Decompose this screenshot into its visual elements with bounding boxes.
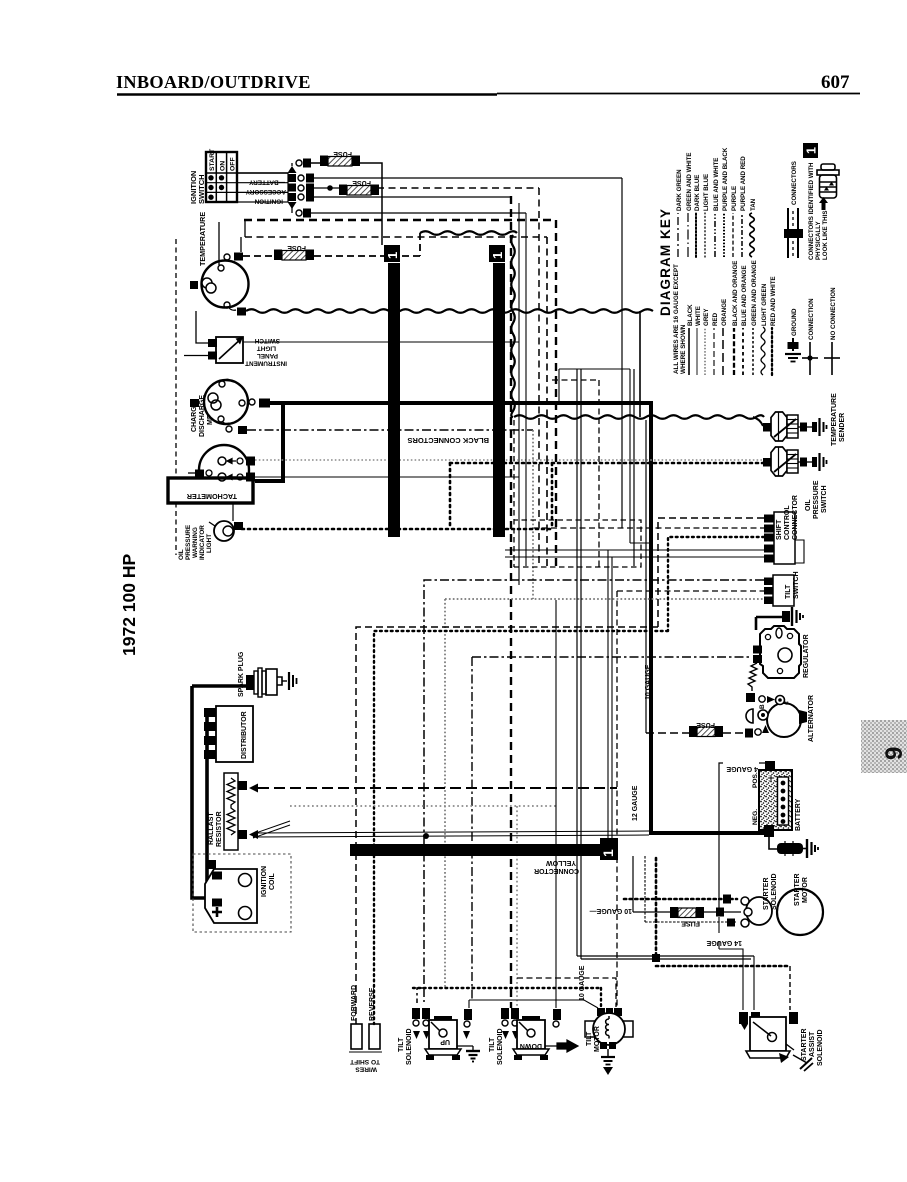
page edge tab 9: [861, 720, 907, 773]
label to shift wires: [349, 1052, 382, 1073]
alternator: [746, 663, 815, 742]
wire thick meter to tachometer: [255, 403, 283, 481]
svg-text:ON: ON: [220, 161, 227, 171]
wire dashed border left x184: [175, 239, 177, 555]
svg-text:INBOARD/OUTDRIVE: INBOARD/OUTDRIVE: [116, 72, 311, 92]
svg-text:GREEN AND ORANGE: GREEN AND ORANGE: [751, 260, 758, 326]
key connectors identified note: [808, 162, 829, 260]
wire pair below yellow connector to assist solenoid: [577, 856, 754, 959]
svg-text:FUSE: FUSE: [333, 150, 352, 157]
svg-text:MOTOR: MOTOR: [802, 877, 809, 903]
svg-text:10 GAUGE: 10 GAUGE: [579, 965, 586, 1001]
instrument panel light switch: [184, 311, 287, 367]
wire wavy temp gauge: [246, 309, 653, 313]
svg-text:CONTROL: CONTROL: [784, 505, 791, 540]
yellow connector bar: [350, 838, 618, 860]
svg-text:FORWARD: FORWARD: [351, 985, 358, 1021]
wire wavy vertical x550: [511, 235, 515, 417]
svg-text:1: 1: [490, 252, 505, 259]
wire heavy dashed instrument border: [244, 220, 556, 567]
key white: [696, 328, 698, 375]
charge discharge meter: [190, 379, 270, 437]
svg-text:COIL: COIL: [269, 873, 276, 890]
svg-text:TEMPERATURE: TEMPERATURE: [198, 212, 207, 266]
wire dashed x599: [552, 380, 599, 567]
wire shift pin5 line: [505, 556, 764, 558]
svg-text:607: 607: [821, 72, 850, 93]
wire grey tach to oil switch: [255, 459, 763, 461]
svg-text:YELLOW: YELLOW: [546, 859, 576, 866]
svg-text:LIGHT: LIGHT: [257, 345, 276, 352]
svg-text:BLUE AND ORANGE: BLUE AND ORANGE: [741, 265, 748, 326]
wire 4 gauge battery pos: [719, 763, 766, 908]
wire dotted riser x450: [449, 463, 452, 529]
svg-text:TILT: TILT: [586, 1031, 593, 1046]
svg-text:1: 1: [805, 147, 819, 154]
svg-text:ALTERNATOR: ALTERNATOR: [808, 695, 815, 742]
wire dashed mid box: [514, 420, 641, 567]
fuse F4: [689, 721, 723, 737]
wire ignition row: [314, 196, 511, 198]
header title INBOARD/OUTDRIVE: [116, 72, 311, 92]
wire dotted reverse: [374, 537, 764, 1024]
key blue and orange: [742, 328, 744, 375]
starter assist solenoid: [739, 1012, 824, 1071]
oil pressure switch: [763, 447, 828, 519]
label yellow connector: [534, 859, 579, 874]
svg-text:RED: RED: [712, 312, 719, 326]
svg-text:1: 1: [385, 252, 400, 259]
svg-text:STARTER: STARTER: [763, 877, 770, 910]
svg-text:SOLENOID: SOLENOID: [406, 1028, 413, 1065]
svg-text:CONNECTOR: CONNECTOR: [534, 867, 579, 874]
svg-text:14 GAUGE: 14 GAUGE: [706, 939, 742, 946]
wire dashed tilt pin2: [617, 590, 764, 592]
tilt solenoid down: [489, 1008, 578, 1065]
key black and orange: [733, 328, 735, 375]
wire dotted assist feed: [656, 965, 790, 968]
wire fuse F3 link: [314, 233, 420, 256]
wire heavy dashed ballast feed: [258, 787, 617, 789]
wire fine dotted coil box feed: [290, 806, 556, 1008]
svg-text:PURPLE AND BLACK: PURPLE AND BLACK: [722, 147, 729, 211]
wire vertical to shift pin2: [621, 178, 623, 528]
wire dotted riser x552: [551, 463, 554, 529]
wire ignition lower terminal: [309, 212, 526, 214]
svg-text:UP: UP: [440, 1038, 450, 1045]
wire dashed forward: [356, 518, 764, 1024]
key no connection symbol: [824, 287, 840, 375]
ballast resistor: [208, 773, 258, 850]
key green and orange: [752, 328, 754, 375]
svg-text:ORANGE: ORANGE: [721, 299, 728, 326]
wire shift pin4 line: [505, 549, 764, 551]
svg-text:SWITCH: SWITCH: [254, 337, 280, 344]
svg-text:FUSE: FUSE: [352, 179, 371, 186]
wire assist left pin2: [753, 956, 755, 1010]
svg-text:GREEN AND WHITE: GREEN AND WHITE: [686, 152, 693, 211]
svg-text:IGNITION: IGNITION: [254, 198, 283, 205]
svg-text:SWITCH: SWITCH: [793, 571, 800, 599]
svg-text:4 GAUGE: 4 GAUGE: [726, 765, 758, 772]
page number 607: [821, 72, 850, 93]
temperature sender: [763, 393, 846, 446]
svg-text:TO SHIFT: TO SHIFT: [350, 1058, 380, 1065]
tilt motor: [585, 1008, 633, 1075]
wire vertical accessory drop: [633, 369, 635, 566]
junction dot accessory: [327, 185, 333, 191]
svg-text:REVERSE: REVERSE: [369, 987, 376, 1021]
svg-text:PANEL: PANEL: [257, 352, 278, 359]
svg-text:REGULATOR: REGULATOR: [803, 634, 810, 678]
svg-text:FUSE: FUSE: [696, 721, 715, 728]
diagram key block: [658, 143, 840, 375]
tachometer: [168, 445, 255, 503]
key dark green: [677, 213, 679, 257]
svg-text:12 GAUGE: 12 GAUGE: [632, 785, 639, 821]
svg-text:DOWN: DOWN: [520, 1042, 542, 1049]
svg-text:SENDER: SENDER: [839, 413, 846, 442]
key light blue: [704, 213, 706, 257]
svg-text:TILT: TILT: [785, 584, 792, 599]
svg-text:LOOK LIKE THIS: LOOK LIKE THIS: [822, 211, 829, 261]
svg-text:MOTOR: MOTOR: [594, 1026, 601, 1052]
svg-text:BLACK CONNECTORS: BLACK CONNECTORS: [407, 436, 489, 445]
svg-text:STARTER: STARTER: [801, 1028, 808, 1061]
wire dashed alternator fuse right: [723, 732, 744, 734]
svg-text:NEG.: NEG.: [752, 809, 759, 825]
key tan: [750, 213, 755, 257]
shift control connector: [764, 495, 804, 564]
wire accessory row through fuse F2: [314, 187, 347, 189]
svg-text:WARNING: WARNING: [192, 527, 199, 558]
svg-text:CONNECTION: CONNECTION: [808, 298, 815, 340]
wire coil pair upper: [253, 831, 649, 833]
svg-text:ALL WIRES ARE 16 GAUGE EXCEPT: ALL WIRES ARE 16 GAUGE EXCEPT: [673, 264, 680, 374]
wire wavy top link: [420, 231, 517, 235]
key connectors symbol: [784, 161, 803, 258]
svg-text:TEMPERATURE: TEMPERATURE: [831, 393, 838, 446]
oil pressure warning indicator light: [178, 521, 243, 560]
wire down solenoid right feed: [469, 600, 598, 1008]
wire heavy dashed vertical x511: [510, 196, 512, 1008]
wire vertical temp link: [639, 311, 641, 417]
starter motor: [777, 873, 823, 935]
wire corner rect right web: [559, 369, 651, 543]
svg-text:SPARK PLUG: SPARK PLUG: [238, 651, 245, 697]
svg-text:BATTERY: BATTERY: [795, 798, 802, 831]
key connection symbol: [802, 298, 818, 375]
key numbered connector box 1: [803, 143, 819, 158]
svg-text:SWITCH: SWITCH: [821, 485, 828, 513]
starter solenoid: [741, 873, 778, 927]
svg-text:OIL: OIL: [178, 549, 185, 560]
wire fuse F5 to starter solenoid: [704, 911, 741, 913]
wire 10 gauge to alternator fuse: [645, 420, 647, 733]
svg-text:TAN: TAN: [750, 198, 757, 211]
svg-text:CONNECTORS: CONNECTORS: [791, 161, 798, 205]
svg-text:LIGHT BLUE: LIGHT BLUE: [703, 174, 710, 211]
label 1972 100 HP: [119, 554, 139, 656]
wire dotted starter solenoid top: [624, 898, 737, 901]
wire tach box to oil light: [176, 503, 233, 521]
distributor: [192, 686, 253, 898]
spark plug: [192, 651, 297, 697]
svg-text:OIL: OIL: [805, 499, 812, 511]
battery: [726, 761, 818, 858]
svg-text:PURPLE: PURPLE: [731, 186, 738, 211]
svg-text:POS.: POS.: [752, 772, 759, 788]
key light green: [761, 327, 765, 375]
wire dashed alternator fuse left: [646, 732, 689, 734]
svg-text:1972 100 HP: 1972 100 HP: [119, 554, 139, 656]
key connector barrel drawing: [817, 164, 839, 198]
wire dotted to oil pressure switch: [450, 462, 763, 465]
svg-text:PURPLE AND RED: PURPLE AND RED: [740, 156, 747, 211]
wire tach lower: [255, 476, 519, 478]
ignition coil: [193, 854, 291, 932]
temperature gauge: [190, 212, 277, 316]
svg-text:WHITE: WHITE: [695, 306, 702, 326]
svg-text:TILT: TILT: [489, 1037, 496, 1052]
wire battery row: [314, 177, 622, 179]
key purple: [732, 213, 734, 257]
svg-text:GROUND: GROUND: [791, 308, 798, 336]
wire thick charge meter feed 12 gauge: [262, 403, 766, 833]
svg-text:NO CONNECTION: NO CONNECTION: [830, 287, 837, 340]
svg-text:DARK BLUE: DARK BLUE: [694, 175, 701, 211]
key blue and white: [714, 213, 716, 257]
wire dashed tilt motor pin3 feed: [517, 978, 616, 1007]
wire vertical x519: [518, 203, 520, 585]
wire dash-dot tilt switch feed: [417, 580, 764, 1003]
svg-text:TILT: TILT: [398, 1037, 405, 1052]
wire ignition battery feed to fuse F1: [309, 163, 382, 245]
svg-text:STARTER: STARTER: [794, 873, 801, 906]
svg-text:RALLAST: RALLAST: [208, 812, 215, 845]
key black: [688, 328, 690, 375]
svg-text:SWITCH: SWITCH: [197, 174, 206, 204]
wire solid pair to fuse F5: [577, 369, 581, 844]
fuse F5: [670, 907, 704, 927]
svg-text:INSTRUMENT: INSTRUMENT: [245, 360, 287, 367]
wire coil pair lower: [253, 835, 649, 837]
wire dash-dot regulator feed: [472, 657, 752, 1000]
junction dot ballast lower feed: [423, 833, 429, 839]
svg-text:GREY: GREY: [703, 308, 710, 326]
wire branch2 to yellow connector box: [611, 557, 613, 838]
svg-text:LIGHT: LIGHT: [206, 534, 213, 553]
tilt solenoid up: [398, 1008, 480, 1065]
svg-text:CONNECTORS IDENTIFIED WITH: CONNECTORS IDENTIFIED WITH: [808, 162, 815, 260]
svg-text:DARK GREEN: DARK GREEN: [676, 169, 683, 211]
black connector bar 1: [384, 245, 400, 537]
svg-text:START: START: [209, 148, 216, 171]
svg-text:B: B: [759, 704, 766, 709]
wire light green thin to starter solenoid lower: [645, 856, 728, 922]
svg-text:RESISTOR: RESISTOR: [216, 811, 223, 847]
wire wavy to temperature sender: [514, 415, 764, 419]
wire dotted vertical x656: [655, 858, 658, 955]
svg-text:PRESSURE: PRESSURE: [813, 480, 820, 519]
wire dash-dot meter: [247, 429, 533, 431]
regulator: [753, 607, 810, 678]
key red and white: [771, 328, 773, 375]
wire 10 gauge drop to starter fuse: [633, 856, 672, 912]
key dark blue: [695, 213, 697, 257]
svg-text:CONNECTOR: CONNECTOR: [792, 495, 799, 540]
fuse F2: [339, 179, 379, 195]
header rule: [117, 94, 860, 95]
wire dashed inner border: [245, 237, 547, 567]
key red: [713, 328, 715, 375]
key purple and black: [723, 213, 725, 257]
svg-text:ASSIST: ASSIST: [809, 1031, 816, 1057]
svg-text:OFF: OFF: [230, 157, 237, 171]
svg-text:DISTRIBUTOR: DISTRIBUTOR: [241, 711, 248, 759]
svg-text:WIRES: WIRES: [355, 1066, 377, 1073]
wire dotted tilt bottom: [413, 988, 601, 1007]
svg-text:WHERE SHOWN: WHERE SHOWN: [680, 324, 687, 374]
fuse F1: [320, 150, 360, 166]
svg-text:PHYSICALLY: PHYSICALLY: [815, 221, 822, 260]
wire ballast diagonals: [253, 821, 290, 838]
wire wavy temp drop: [753, 417, 763, 426]
tilt switch: [764, 571, 800, 606]
key ground symbol: [785, 308, 801, 362]
key green and white: [687, 213, 689, 257]
svg-text:10 GAUGE—: 10 GAUGE—: [590, 907, 632, 914]
svg-text:BLACK: BLACK: [687, 304, 694, 326]
svg-text:INDICATOR: INDICATOR: [199, 525, 206, 560]
svg-text:PRESSURE: PRESSURE: [185, 524, 192, 560]
wire branch to yellow connector box: [607, 550, 609, 838]
svg-text:ACCESSORY: ACCESSORY: [245, 188, 286, 195]
svg-text:9: 9: [881, 747, 907, 760]
svg-text:TACHOMETER: TACHOMETER: [186, 492, 237, 501]
wire fine dotted tilt pin3: [445, 599, 764, 988]
svg-text:LIGHT GREEN: LIGHT GREEN: [761, 283, 768, 326]
key grey: [704, 328, 706, 375]
key orange: [722, 328, 724, 375]
ignition switch: [189, 148, 314, 217]
svg-text:SOLENOID: SOLENOID: [497, 1028, 504, 1065]
svg-text:SHIFT: SHIFT: [776, 519, 783, 540]
wire 14 gauge route: [719, 917, 743, 1010]
svg-text:DIAGRAM KEY: DIAGRAM KEY: [658, 208, 673, 316]
black connector bar 2: [489, 245, 505, 537]
svg-text:BLUE AND WHITE: BLUE AND WHITE: [713, 158, 720, 211]
key purple and red: [741, 213, 743, 257]
shift wires forward terminal: [351, 985, 362, 1049]
svg-text:F: F: [785, 701, 792, 705]
wire thin vertical x526: [525, 213, 527, 566]
wire instrument switch feed: [243, 341, 519, 343]
svg-text:FUSE: FUSE: [287, 244, 306, 251]
svg-text:10 GAUGE: 10 GAUGE: [645, 664, 652, 700]
shift wires reverse terminal: [369, 987, 380, 1049]
wire dashed shift pin2: [532, 527, 764, 529]
wire dashed assist right pin drop: [789, 966, 791, 1010]
svg-text:FUSE: FUSE: [681, 920, 700, 927]
svg-text:SOLENOID: SOLENOID: [817, 1029, 824, 1066]
svg-text:IGNITION: IGNITION: [261, 866, 268, 897]
wire dashed vertical x617: [616, 591, 618, 1007]
fuse F3: [274, 244, 314, 260]
svg-text:—BATTERY: —BATTERY: [248, 178, 285, 185]
svg-text:BLACK AND ORANGE: BLACK AND ORANGE: [732, 261, 739, 326]
svg-text:1: 1: [600, 849, 616, 857]
svg-text:SOLENOID: SOLENOID: [771, 873, 778, 910]
svg-text:RED AND WHITE: RED AND WHITE: [770, 276, 777, 326]
wire dotted oil light: [242, 528, 552, 531]
